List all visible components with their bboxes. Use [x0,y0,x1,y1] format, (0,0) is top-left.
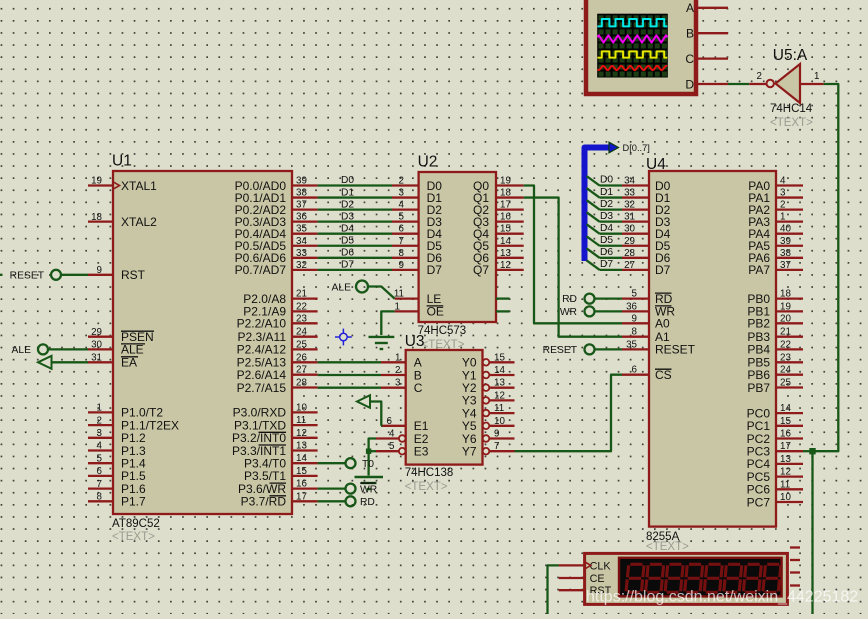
svg-text:18: 18 [500,188,511,199]
svg-text:11: 11 [296,415,306,426]
svg-text:8: 8 [632,327,638,338]
oscilloscope pin C [685,52,728,66]
U1 pin 4 P1.3 [88,441,146,458]
svg-text:23: 23 [296,313,307,324]
U1 pin 12 P3.2/INT0 [232,428,318,445]
U4 pin 23 PB5 [747,352,803,369]
U2 pin 13 Q6 [473,248,524,265]
U4 pin 18 PB0 [747,289,803,306]
svg-text:P1.7: P1.7 [121,495,146,509]
U1 pin 3 P1.2 [88,428,146,445]
terminal T0 [346,458,375,470]
U2 pin 1 OE (active low) [395,301,444,318]
svg-text:EA: EA [121,356,137,370]
oscilloscope pin B [686,27,728,41]
wire junction PC3 down to bottom edge [811,454,813,614]
U2 pin 15 Q4 [473,224,524,241]
waveform channel D (red sine wave) [598,66,668,70]
U2 pin 3 D1 [392,191,442,205]
wire U1 P2.5/A13 to U3 A [318,352,401,363]
U4 pin 22 PB4 [747,339,803,356]
bus entry D7 to U4 D7 [587,259,623,270]
svg-text:34: 34 [624,176,635,187]
svg-text:PB4: PB4 [747,343,770,357]
svg-text:16: 16 [296,479,307,490]
svg-text:PB7: PB7 [747,381,770,395]
wire D5 net U1 P0.5 to U2 D5 [318,235,404,246]
U1 pin 29 PSEN [88,327,154,344]
svg-text:<TEXT>: <TEXT> [646,541,689,553]
wire D4 net U1 P0.4 to U2 D4 [318,223,405,234]
U4 pin 21 PB3 [747,327,803,344]
terminal WR (to U4 WR) [560,306,595,317]
U1 pin 30 ALE [88,340,145,357]
svg-text:33: 33 [624,188,635,199]
svg-text:26: 26 [296,352,307,363]
U1 pin 14 P3.4/T0 [244,453,318,470]
U1 pin 15 P3.5/T1 [244,466,318,483]
wire U2 OE to ground [381,311,394,335]
svg-text:74HC14: 74HC14 [770,103,813,115]
svg-text:36: 36 [296,212,307,223]
U1 pin 7 P1.6 [88,479,146,496]
origin marker (blue crosshair) [335,329,352,346]
wire U1 P3.4/T0 to terminal T0 [318,462,346,464]
wire D1 net U1 P0.1 to U2 D1 [318,187,405,198]
svg-text:18: 18 [91,212,102,223]
svg-text:30: 30 [624,224,635,235]
svg-text:P3.7/RD: P3.7/RD [241,495,287,509]
svg-text:37: 37 [296,200,307,211]
svg-text:24: 24 [296,327,307,338]
U1 pin 23 P2.2/A10 [237,313,318,330]
U4 pin 20 PB2 [747,313,803,330]
U4 pin 8 A1 [622,327,670,344]
U2 pin 9 D7 [392,263,442,277]
U3 pin 13 Y2 (bubble) [462,378,515,395]
U1 pin 35 P0.4/AD4 [235,224,318,241]
svg-text:D3: D3 [600,211,613,222]
svg-text:A: A [686,1,694,15]
wire arrow to U3 E1 pin 6 [370,402,381,426]
U2 pin 14 Q5 [473,236,524,253]
U1 pin 5 P1.4 [88,453,146,470]
svg-text:RESET: RESET [10,270,45,281]
U4 pin 4 PA0 [748,176,803,193]
wire U1 P3.7/RD to terminal RD [318,500,346,502]
svg-text:17: 17 [296,491,307,502]
svg-text:32: 32 [624,200,635,211]
U4 pin 25 PB7 [747,378,803,395]
U3 pin 7 Y7 (bubble) [462,441,515,458]
svg-text:6: 6 [632,365,638,376]
oscilloscope pin A [686,1,728,15]
U3 pin 14 Y1 (bubble) [462,365,515,382]
svg-text:30: 30 [91,340,102,351]
svg-text:5: 5 [389,441,395,452]
U1 pin 17 P3.7/RD [241,491,318,508]
waveform channel B (magenta triangle wave) [598,35,668,42]
svg-text:1: 1 [780,212,785,223]
U2 unconnected stub right of LE [496,297,510,299]
wire D7 net U1 P0.7 to U2 D7 [318,260,404,271]
U2 pin 7 D5 [392,239,442,253]
svg-text:RESET: RESET [655,343,696,357]
svg-text:28: 28 [296,378,307,389]
svg-text:39: 39 [296,176,307,187]
bus entry D1 to U4 D1 [587,187,623,198]
svg-text:9: 9 [632,313,637,324]
U1 pin 18 XTAL2 [88,212,157,229]
svg-text:P2.4/A12: P2.4/A12 [237,343,287,357]
svg-text:32: 32 [296,260,307,271]
U4 pin 13 PC4 [747,454,803,471]
svg-text:5: 5 [632,289,638,300]
U4 pin 38 PA6 [748,248,803,265]
svg-text:C: C [685,52,694,66]
U1 pin 31 EA [88,353,138,370]
svg-text:15: 15 [296,466,307,477]
svg-text:4: 4 [97,441,103,452]
terminal RD [346,496,375,508]
svg-text:15: 15 [780,416,791,427]
svg-text:D4: D4 [600,223,613,234]
U2 unconnected stub right of OE [496,310,510,312]
svg-text:CS: CS [655,368,672,382]
svg-text:29: 29 [91,327,102,338]
svg-text:14: 14 [500,236,511,247]
svg-text:11: 11 [394,289,404,300]
svg-text:PA7: PA7 [748,263,770,277]
U4 pin 27 D7 [622,260,671,277]
svg-text:RST: RST [121,268,146,282]
U2 pin 18 Q1 [473,188,524,205]
svg-text:4: 4 [389,429,395,440]
svg-text:D7: D7 [600,259,613,270]
wire U4 PC3 to junction [803,450,813,452]
U4 pin 11 PC6 [747,479,803,496]
bus entry D3 to U4 D3 [587,211,623,222]
display pin CE [559,573,605,585]
U4 pin 6 CS [622,365,672,382]
U4 pin 28 D6 [622,248,671,265]
svg-text:CE: CE [590,573,605,585]
svg-text:10: 10 [296,402,307,413]
wire U1 P2.6/A14 to U3 B [318,365,401,376]
svg-text:D: D [685,77,694,91]
svg-text:CLK: CLK [590,560,612,572]
svg-text:3: 3 [97,428,103,439]
U4 pin 37 PA7 [748,260,803,277]
U5:A pin 2 (output stub) [749,71,766,84]
U4 pin 31 D3 [622,212,671,229]
U3 pin 4 E2 (active low, bubble) [376,429,429,446]
terminal RESET (input, left) [10,270,61,282]
display screen (black) [619,558,782,597]
U1 pin 33 P0.6/AD6 [235,248,318,265]
svg-text:14: 14 [494,365,505,376]
svg-text:D7: D7 [341,260,354,271]
U1 pin 28 P2.7/A15 [237,378,318,395]
svg-text:U2: U2 [418,154,438,171]
terminal RESET (to U4 RESET) [543,344,595,355]
svg-text:D1: D1 [341,187,354,198]
svg-text:24: 24 [780,365,791,376]
bus entry D6 to U4 D6 [587,247,623,258]
svg-text:Q7: Q7 [473,263,489,277]
U1 pin 37 P0.2/AD2 [235,200,318,217]
svg-text:B: B [686,27,694,41]
terminal arrow EA (left, open arrow) [38,356,52,369]
display pin RST [559,585,612,597]
wire RESET terminal to U1 RST pin 9 [61,274,88,276]
svg-text:9: 9 [494,429,499,440]
U4 pin 5 RD [622,289,673,306]
U1 pin 34 P0.5/AD5 [235,236,318,253]
display pin CLK [559,560,612,572]
U1 pin 25 P2.4/A12 [237,339,318,356]
svg-text:12: 12 [500,260,511,271]
svg-text:<TEXT>: <TEXT> [770,117,813,129]
svg-text:1: 1 [97,403,102,414]
svg-text:34: 34 [296,236,307,247]
svg-text:D7: D7 [655,263,671,277]
svg-text:<TEXT>: <TEXT> [112,531,155,543]
svg-text:D6: D6 [341,248,354,259]
U1 pin 1 P1.0/T2 [88,403,163,420]
svg-text:38: 38 [780,248,791,259]
svg-text:19: 19 [500,176,511,187]
svg-text:OE: OE [427,305,444,319]
terminal RD (to U4 RD) [562,294,594,305]
terminal ALE (mid, to U2 LE) [332,281,368,294]
oscilloscope instrument body (top, partially cut off) [586,0,696,94]
oscilloscope pin D [685,77,728,91]
wire U3 E2 to E3 junction and ground [369,439,376,476]
U1 pin 38 P0.1/AD1 [235,188,318,205]
svg-text:14: 14 [296,453,307,464]
svg-text:13: 13 [494,378,505,389]
U3 pin 6 E1 [381,416,429,433]
wire net U3 Y7 to U4 CS [515,375,623,452]
U4 pin 9 A0 [622,313,670,330]
U4 pin 40 PA4 [748,224,803,241]
svg-text:18: 18 [780,289,791,300]
wire ALE terminal to U1 ALE pin 30 [48,348,88,350]
svg-text:14: 14 [780,403,791,414]
wire fragment at left edge [0,274,3,276]
svg-text:E3: E3 [414,445,429,459]
wire U1 P3.6/WR to terminal WR [318,487,346,489]
svg-text:D6: D6 [600,247,613,258]
svg-text:6: 6 [387,416,393,427]
svg-text:28: 28 [624,248,635,259]
svg-text:19: 19 [780,301,791,312]
svg-text:P2.2/A10: P2.2/A10 [237,317,287,331]
wire D0 net U1 P0.0 to U2 D0 [318,175,404,186]
svg-text:P0.7/AD7: P0.7/AD7 [235,263,287,277]
terminal arrow to U3 E1 (open arrow) [357,395,370,408]
U2 pin 5 D3 [392,215,442,229]
IC U4 8255A body [649,171,776,527]
svg-text:1: 1 [814,71,819,82]
U2 pin 11 LE [394,289,441,306]
IC U3 74HC138 body [406,350,483,465]
svg-text:9: 9 [97,265,102,276]
svg-text:<TEXT>: <TEXT> [405,481,448,493]
U4 pin 29 D5 [622,236,671,253]
U4 pin 15 PC1 [747,416,803,433]
svg-text:RD: RD [360,497,375,508]
wire U1 P2.7/A15 to U3 C [318,378,401,389]
ground symbol below U2 OE [369,337,395,349]
svg-text:U3: U3 [405,333,425,350]
svg-text:A0: A0 [655,317,670,331]
U1 pin 13 P3.3/INT1 [232,441,318,458]
svg-text:ALE: ALE [12,345,32,356]
svg-text:35: 35 [626,339,637,350]
U3 pin 10 Y5 (bubble) [462,416,515,433]
svg-text:XTAL1: XTAL1 [121,179,157,193]
U1 pin 6 P1.5 [88,466,146,483]
U4 pin 10 PC7 [747,492,803,509]
U1 pin 8 P1.7 [88,492,146,509]
U3 pin 3 C [381,381,423,395]
svg-text:13: 13 [296,441,307,452]
svg-text:17: 17 [500,200,511,211]
wire net U5:A input from U4 PC3 (vertical) [816,84,839,451]
U3 pin 15 Y0 (bubble) [462,352,515,369]
svg-text:31: 31 [91,353,102,364]
terminal WR (active low) [346,483,378,495]
bus entry D2 to U4 D2 [587,199,623,210]
svg-text:P2.7/A15: P2.7/A15 [237,381,287,395]
U1 pin 11 P3.1/TXD [234,415,318,432]
U4 pin 14 PC0 [747,403,803,420]
svg-text:35: 35 [296,224,307,235]
svg-text:74HC573: 74HC573 [418,325,467,337]
U1 pin 21 P2.0/A8 [243,289,317,306]
svg-text:WR: WR [560,307,577,318]
inverter U5:A 74HC14 (points left, bubble on output) [767,47,814,129]
wire D3 net U1 P0.3 to U2 D3 [318,211,405,222]
svg-text:74HC138: 74HC138 [405,467,454,479]
U4 pin 16 PC2 [747,429,803,446]
U1 pin 24 P2.3/A11 [238,327,318,344]
svg-text:37: 37 [780,260,791,271]
U2 pin 12 Q7 [473,260,524,277]
U4 pin 30 D4 [622,224,671,241]
U1 pin 36 P0.3/AD3 [235,212,318,229]
U4 pin 34 D0 [622,176,671,193]
svg-text:PC7: PC7 [747,495,771,509]
svg-text:6: 6 [97,466,103,477]
svg-text:40: 40 [780,224,791,235]
U4 pin 39 PA5 [748,236,803,253]
svg-text:https://blog.csdn.net/weixin_4: https://blog.csdn.net/weixin_44225182 [586,589,858,606]
svg-text:38: 38 [296,188,307,199]
U2 pin 17 Q2 [473,200,524,217]
svg-text:7: 7 [97,479,102,490]
svg-text:1: 1 [395,301,400,312]
svg-text:22: 22 [296,301,307,312]
bus entry D4 to U4 D4 [587,223,623,234]
svg-text:D[0..7]: D[0..7] [623,143,650,153]
U3 pin 11 Y4 (bubble) [462,403,515,420]
svg-text:D4: D4 [341,223,354,234]
svg-text:27: 27 [624,260,635,271]
wire display CLK to bottom edge [548,565,559,614]
bus D[0..7] vertical trunk [585,148,610,262]
svg-text:12: 12 [494,390,505,401]
svg-text:RESET: RESET [543,345,578,356]
svg-text:D3: D3 [341,211,354,222]
svg-text:D7: D7 [427,263,443,277]
svg-text:WR: WR [360,484,377,495]
svg-text:C: C [414,381,423,395]
U4 pin 17 PC3 [747,441,803,458]
svg-text:ALE: ALE [332,283,352,294]
U4 pin 1 PA3 [748,212,803,229]
oscilloscope screen with waveform grid [597,14,668,78]
svg-text:16: 16 [780,429,791,440]
svg-text:13: 13 [500,248,511,259]
waveform channel C (yellow square wave) [598,51,668,57]
svg-text:31: 31 [624,212,635,223]
U1 pin 26 P2.5/A13 [237,352,318,369]
bus entry D5 to U4 D5 [587,235,623,246]
svg-text:27: 27 [296,365,307,376]
U1 pin 10 P3.0/RXD [233,402,318,419]
svg-text:D0: D0 [341,175,354,186]
U2 pin 16 Q3 [473,212,524,229]
U4 pin 3 PA1 [748,188,803,205]
bus arrow head D[0..7] [609,142,619,153]
U2 pin 4 D2 [392,203,442,217]
svg-text:33: 33 [296,248,307,259]
waveform channel A (cyan square wave) [598,19,668,26]
U3 pin 9 Y6 (bubble) [462,429,515,446]
svg-text:D5: D5 [341,235,354,246]
U4 pin 19 PB1 [747,301,803,318]
svg-text:3: 3 [780,188,786,199]
svg-text:10: 10 [494,416,505,427]
svg-text:16: 16 [500,212,511,223]
wire D2 net U1 P0.2 to U2 D2 [318,199,405,210]
U4 pin 24 PB6 [747,365,803,382]
U1 pin 32 P0.7/AD7 [235,260,318,277]
svg-text:12: 12 [296,428,307,439]
svg-text:36: 36 [626,301,637,312]
svg-text:11: 11 [780,479,790,490]
U4 pin 2 PA2 [748,200,803,217]
svg-text:U1: U1 [112,153,132,170]
U4 pin 12 PC5 [747,467,803,484]
wire RESET terminal to U4 pin 35 [595,348,623,350]
U1 pin 39 P0.0/AD0 [235,176,318,193]
svg-text:11: 11 [494,403,504,414]
svg-text:ALE: ALE [121,343,144,357]
svg-text:5: 5 [97,453,103,464]
U2 pin 19 Q0 [473,176,524,193]
svg-text:2: 2 [757,71,762,82]
svg-text:Y7: Y7 [462,445,477,459]
wire EA arrow to U1 EA pin 31 [52,361,89,363]
svg-text:20: 20 [780,313,791,324]
svg-text:RD: RD [562,294,577,305]
svg-text:T0: T0 [362,459,374,470]
svg-text:U5:A: U5:A [773,47,808,64]
